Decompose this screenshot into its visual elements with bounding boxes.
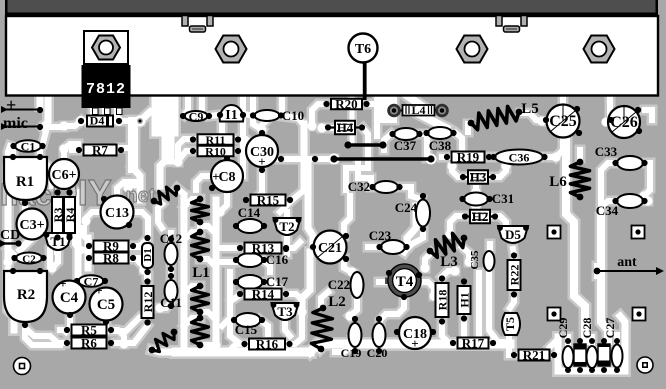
svg-text:C1: C1	[21, 140, 36, 154]
svg-text:+: +	[411, 336, 418, 351]
svg-text:C19: C19	[341, 346, 362, 360]
svg-text:C21: C21	[318, 241, 342, 256]
svg-text:C23: C23	[369, 228, 392, 243]
svg-text:R19: R19	[457, 150, 480, 165]
svg-text:ant: ant	[617, 255, 637, 270]
svg-text:R4: R4	[63, 208, 77, 223]
svg-text:C35: C35	[469, 250, 481, 269]
svg-text:R20: R20	[335, 97, 357, 112]
svg-text:R2: R2	[17, 287, 35, 303]
svg-text:R6: R6	[81, 336, 97, 351]
svg-text:C22: C22	[328, 277, 350, 292]
svg-text:mic: mic	[3, 115, 28, 132]
svg-text:R10: R10	[205, 145, 226, 159]
svg-text:R14: R14	[252, 287, 275, 302]
svg-text:R18: R18	[436, 290, 450, 311]
svg-text:C5: C5	[97, 297, 115, 313]
svg-text:D5: D5	[505, 227, 521, 242]
svg-text:C28: C28	[580, 318, 594, 339]
svg-text:D1: D1	[142, 248, 154, 261]
svg-text:C38: C38	[429, 138, 452, 153]
svg-text:C15: C15	[235, 322, 258, 337]
svg-text:R15: R15	[257, 193, 280, 208]
svg-text:T5: T5	[503, 317, 517, 331]
svg-text:C33: C33	[595, 144, 618, 159]
svg-text:+: +	[59, 276, 66, 291]
svg-text:C3+: C3+	[19, 218, 44, 233]
svg-text:R16: R16	[256, 337, 279, 352]
svg-text:7812: 7812	[86, 81, 126, 98]
svg-text:C27: C27	[603, 318, 617, 339]
svg-text:H1: H1	[458, 292, 472, 307]
svg-text:L2: L2	[328, 294, 346, 310]
svg-text:+: +	[6, 95, 16, 115]
svg-text:R12: R12	[141, 292, 155, 313]
svg-text:T3: T3	[277, 304, 293, 319]
svg-text:+: +	[258, 154, 265, 169]
svg-text:T2: T2	[279, 219, 294, 234]
svg-text:T6: T6	[355, 42, 371, 57]
svg-text:T4: T4	[396, 274, 414, 290]
svg-text:R8: R8	[103, 251, 119, 266]
svg-text:R1: R1	[16, 174, 34, 190]
svg-text:L3: L3	[440, 254, 458, 270]
svg-text:C20: C20	[367, 346, 388, 360]
svg-text:C31: C31	[492, 191, 514, 206]
svg-text:C13: C13	[105, 206, 129, 221]
svg-text:C10: C10	[282, 108, 304, 123]
svg-text:L5: L5	[521, 101, 539, 117]
svg-text:+: +	[212, 169, 219, 184]
svg-text:C37: C37	[394, 138, 417, 153]
svg-text:+: +	[95, 283, 102, 298]
svg-text:H2: H2	[472, 209, 489, 224]
svg-text:C36: C36	[509, 151, 530, 165]
svg-text:L4: L4	[411, 103, 425, 117]
svg-text:R22: R22	[508, 265, 522, 286]
svg-text:C4: C4	[60, 290, 79, 306]
svg-text:R13: R13	[252, 241, 275, 256]
svg-text:H4: H4	[337, 120, 354, 135]
svg-text:L1: L1	[192, 265, 210, 281]
svg-text:L6: L6	[549, 174, 567, 190]
svg-text:H3: H3	[470, 170, 487, 185]
svg-text:C34: C34	[596, 203, 619, 218]
svg-text:D4: D4	[90, 114, 105, 128]
svg-text:C32: C32	[348, 179, 370, 194]
svg-text:C8: C8	[218, 170, 235, 185]
svg-text:C2: C2	[22, 254, 36, 266]
svg-text:R21: R21	[523, 348, 545, 363]
svg-text:R17: R17	[462, 336, 485, 351]
svg-text:R7: R7	[92, 143, 108, 158]
svg-text:I1: I1	[225, 108, 237, 123]
svg-text:C9: C9	[189, 110, 204, 124]
svg-text:C6+: C6+	[51, 168, 76, 183]
svg-text:C24: C24	[395, 200, 418, 215]
